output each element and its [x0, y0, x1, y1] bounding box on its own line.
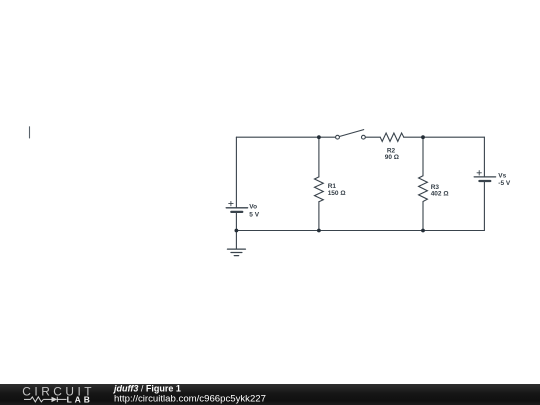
- svg-text:150 Ω: 150 Ω: [328, 190, 346, 197]
- svg-text:402 Ω: 402 Ω: [431, 190, 449, 197]
- svg-text:http://circuitlab.com/c966pc5y: http://circuitlab.com/c966pc5ykk227: [114, 394, 266, 405]
- wire left rail lower: [235, 213, 237, 231]
- wire switch to R2: [365, 136, 380, 138]
- voltage source Vs: [474, 171, 495, 181]
- cursor tick: [29, 127, 31, 138]
- svg-text:R1: R1: [328, 183, 337, 190]
- resistor R1: [315, 177, 324, 202]
- svg-text:90 Ω: 90 Ω: [385, 154, 399, 161]
- svg-text:Vs: Vs: [498, 173, 506, 180]
- svg-text:5 V: 5 V: [249, 211, 259, 218]
- node R1 top junction: [317, 135, 321, 139]
- wire right rail upper: [483, 137, 485, 176]
- wire left rail upper: [235, 137, 237, 207]
- wire R3 branch bottom: [422, 202, 424, 231]
- resistor R2: [380, 133, 404, 141]
- svg-text:jduff3 / Figure 1: jduff3 / Figure 1: [113, 383, 181, 393]
- wire top rail left: [236, 136, 335, 138]
- wire ground stem: [235, 231, 237, 250]
- voltage source Vo: [226, 201, 247, 212]
- wire R2 to top-right corner: [404, 136, 485, 138]
- wire bottom rail: [236, 230, 484, 232]
- CircuitLab logo squiggle (resistor + diode): [24, 397, 67, 402]
- wire right rail lower: [483, 182, 485, 231]
- wire R3 branch top: [422, 137, 424, 176]
- resistor R3: [419, 176, 428, 202]
- wire R1 branch bottom: [318, 202, 320, 231]
- node R1 bottom junction: [317, 229, 321, 233]
- svg-text:-5 V: -5 V: [498, 180, 511, 187]
- node ground junction: [235, 229, 239, 233]
- svg-text:Vo: Vo: [249, 204, 257, 211]
- svg-text:LAB: LAB: [67, 395, 93, 405]
- ground: [228, 249, 246, 256]
- node R3 bottom junction: [421, 229, 425, 233]
- switch SW1: [336, 130, 366, 140]
- node R3 top junction: [421, 135, 425, 139]
- wire R1 branch top: [318, 137, 320, 177]
- footer bar: [0, 384, 540, 405]
